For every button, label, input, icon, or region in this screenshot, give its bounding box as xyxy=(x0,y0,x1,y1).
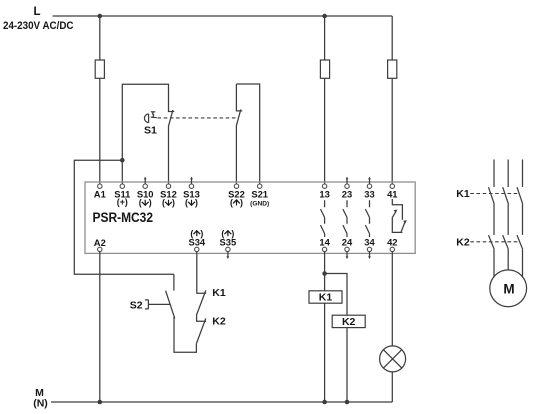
svg-text:K2: K2 xyxy=(342,316,356,328)
svg-text:): ) xyxy=(149,198,152,208)
svg-text:A2: A2 xyxy=(94,237,106,248)
svg-text:42: 42 xyxy=(387,236,397,247)
svg-text:K2: K2 xyxy=(456,236,470,248)
svg-text:S2: S2 xyxy=(130,300,143,312)
svg-text:): ) xyxy=(231,229,234,239)
svg-text:34: 34 xyxy=(364,236,375,247)
svg-text:33: 33 xyxy=(364,188,374,199)
svg-text:41: 41 xyxy=(387,188,397,199)
svg-text:(N): (N) xyxy=(33,398,48,410)
svg-text:S1: S1 xyxy=(144,124,157,136)
svg-text:K2: K2 xyxy=(212,315,226,327)
svg-text:K1: K1 xyxy=(319,292,333,304)
svg-text:(: ( xyxy=(162,198,165,208)
svg-text:(+): (+) xyxy=(117,197,128,207)
svg-text:A1: A1 xyxy=(94,188,106,199)
svg-text:K1: K1 xyxy=(456,188,470,200)
svg-text:PSR-MC32: PSR-MC32 xyxy=(93,210,154,226)
svg-text:): ) xyxy=(200,229,203,239)
svg-text:): ) xyxy=(195,198,198,208)
svg-text:23: 23 xyxy=(342,188,352,199)
svg-text:S21: S21 xyxy=(251,188,268,199)
svg-text:L: L xyxy=(33,6,40,18)
svg-text:24-230V AC/DC: 24-230V AC/DC xyxy=(3,20,74,32)
svg-text:(: ( xyxy=(190,229,193,239)
svg-text:M: M xyxy=(503,281,514,296)
svg-text:): ) xyxy=(172,198,175,208)
svg-text:(GND): (GND) xyxy=(250,200,269,207)
svg-text:(: ( xyxy=(139,198,142,208)
svg-text:(: ( xyxy=(221,229,224,239)
svg-text:13: 13 xyxy=(319,188,329,199)
svg-text:): ) xyxy=(240,198,243,208)
svg-text:(: ( xyxy=(230,198,233,208)
svg-text:24: 24 xyxy=(342,236,353,247)
svg-text:(: ( xyxy=(185,198,188,208)
svg-text:14: 14 xyxy=(319,236,330,247)
svg-text:K1: K1 xyxy=(212,287,226,299)
